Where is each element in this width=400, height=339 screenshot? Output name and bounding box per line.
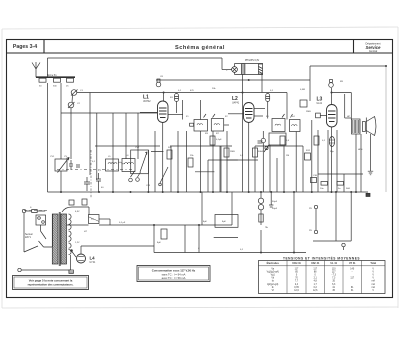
svg-text:mA: mA xyxy=(371,283,375,286)
svg-text:PHILIPS 6,3V: PHILIPS 6,3V xyxy=(245,60,260,62)
svg-text:0,5M: 0,5M xyxy=(300,89,305,91)
svg-text:1,2V: 1,2V xyxy=(75,242,80,244)
svg-text:0,35: 0,35 xyxy=(294,287,299,289)
svg-text:6,3V: 6,3V xyxy=(75,211,80,213)
svg-text:UY 41: UY 41 xyxy=(349,262,356,265)
svg-text:50µF: 50µF xyxy=(272,208,278,210)
svg-text:HP: HP xyxy=(347,116,351,118)
svg-text:UAF 41: UAF 41 xyxy=(311,262,320,265)
svg-text:0,1µF: 0,1µF xyxy=(216,139,222,141)
svg-text:L4: L4 xyxy=(90,256,96,261)
svg-text:Central: Central xyxy=(369,49,378,53)
svg-text:HPS: HPS xyxy=(358,149,363,151)
svg-text:PU: PU xyxy=(309,230,312,232)
svg-text:Consommation sous 117 V,50 Hz: Consommation sous 117 V,50 Hz xyxy=(152,269,196,273)
svg-text:L3: L3 xyxy=(317,97,323,103)
svg-text:UL41: UL41 xyxy=(317,103,323,105)
svg-text:Ig2(g2+g4): Ig2(g2+g4) xyxy=(267,284,278,286)
svg-text:220 V: 220 V xyxy=(25,237,31,239)
svg-text:−7,3: −7,3 xyxy=(331,275,336,277)
svg-text:0,1 µF: 0,1 µF xyxy=(119,222,126,224)
svg-text:UY41: UY41 xyxy=(90,262,96,264)
svg-text:UAF41: UAF41 xyxy=(232,102,240,105)
svg-text:Électrodes: Électrodes xyxy=(267,262,280,265)
svg-text:UCH 41: UCH 41 xyxy=(292,262,301,265)
svg-text:UCH42: UCH42 xyxy=(143,101,151,103)
svg-text:Total: Total xyxy=(370,262,376,265)
svg-text:12,6: 12,6 xyxy=(313,290,318,292)
svg-text:Borne Pu: Borne Pu xyxy=(47,74,57,77)
svg-text:mA: mA xyxy=(371,280,375,283)
svg-text:avec TC : I = 59 mA: avec TC : I = 59 mA xyxy=(162,276,186,280)
svg-text:12,6: 12,6 xyxy=(294,290,299,292)
svg-text:1M: 1M xyxy=(286,155,289,157)
svg-text:50µF: 50µF xyxy=(272,201,278,203)
svg-text:Schéma général: Schéma général xyxy=(175,45,225,51)
svg-text:sans TC : I = 94 mA: sans TC : I = 94 mA xyxy=(162,272,186,276)
svg-text:5kΩ: 5kΩ xyxy=(346,188,350,190)
svg-text:représentation des commutateur: représentation des commutateurs. xyxy=(28,283,74,287)
svg-text:TENSIONS ET INTENSITÉS MOYE: TENSIONS ET INTENSITÉS MOYENNES xyxy=(283,255,360,260)
svg-text:L2: L2 xyxy=(232,96,238,102)
svg-text:Secteur: Secteur xyxy=(25,233,33,236)
svg-text:Vg2(g2+g4): Vg2(g2+g4) xyxy=(267,271,279,273)
svg-text:8µF: 8µF xyxy=(222,221,226,223)
svg-text:PU: PU xyxy=(309,208,312,210)
svg-text:TC: TC xyxy=(91,219,94,221)
svg-text:1MΩ: 1MΩ xyxy=(230,151,235,153)
svg-text:Vg1: Vg1 xyxy=(271,275,276,277)
svg-text:8µF: 8µF xyxy=(157,242,161,244)
svg-text:2MΩ: 2MΩ xyxy=(306,111,311,113)
svg-text:mA: mA xyxy=(371,286,375,289)
svg-text:CV: CV xyxy=(64,156,68,158)
svg-text:Vf: Vf xyxy=(272,290,275,292)
svg-text:L1: L1 xyxy=(143,95,149,101)
svg-text:Pages 3-4: Pages 3-4 xyxy=(13,44,37,50)
svg-text:UL 41: UL 41 xyxy=(330,262,337,265)
svg-text:8µF: 8µF xyxy=(203,221,207,223)
svg-text:50kΩ: 50kΩ xyxy=(258,151,264,153)
